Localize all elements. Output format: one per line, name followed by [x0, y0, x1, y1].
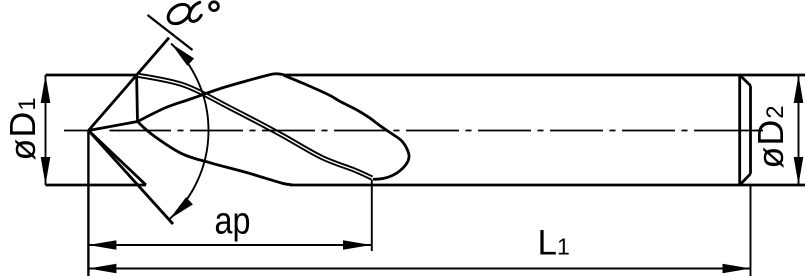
svg-text:ap: ap: [215, 200, 251, 242]
